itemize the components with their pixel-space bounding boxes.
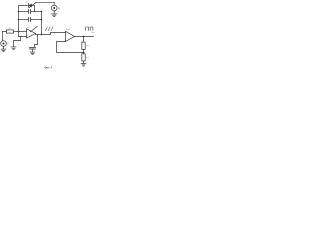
wire divider bottom [83, 61, 85, 63]
ground divider [81, 64, 86, 67]
ground below capacitor C2 [30, 52, 35, 55]
node output [83, 36, 85, 38]
wire top rail [36, 2, 54, 5]
generator G1 [1, 32, 7, 49]
capacitor C1 [19, 10, 42, 14]
resistor R2 zigzag [45, 27, 53, 31]
node divider junction [83, 52, 85, 54]
op-amp DA1.1 [27, 27, 38, 39]
wire drop to cap loop [34, 6, 36, 12]
wire divider top [83, 37, 85, 43]
lamp HL1 [51, 5, 57, 13]
capacitor C2 parallel branch [19, 18, 42, 22]
svg-text:G: G [7, 42, 9, 45]
ground input branch [11, 47, 16, 50]
svg-text:Фиг. 4: Фиг. 4 [44, 65, 52, 69]
svg-text:DA1: DA1 [27, 26, 30, 29]
wire op-amp2 output [75, 36, 94, 38]
node cap C2 junction right [41, 19, 43, 21]
svg-text:Вых.: Вых. [91, 32, 96, 34]
node cap C1 junction [41, 11, 43, 13]
node cap C1 junction left [18, 11, 20, 13]
resistor R7 [82, 54, 85, 61]
ground below lamp [52, 14, 57, 17]
wire op-amp1 output [35, 34, 41, 36]
varicap VD1 [29, 4, 35, 8]
resistor R1 [3, 30, 27, 33]
wire diagonal arrow to top rail [29, 2, 36, 8]
op-amp DA2 [66, 31, 75, 41]
wire between divider resistors [83, 49, 85, 53]
node junction bus/main [18, 31, 20, 33]
wire vertical bus left feedback [19, 6, 28, 32]
node cap C2 junction left [18, 19, 20, 21]
svg-text:M: M [58, 7, 60, 11]
meander output symbol [86, 27, 93, 30]
ground below generator [1, 49, 6, 52]
resistor R5 [82, 42, 85, 49]
wire inverting input stub [19, 32, 27, 37]
capacitor C2 under op-amp [30, 35, 38, 52]
wire feedback to inverting input [57, 42, 84, 53]
node output junction [41, 34, 43, 36]
wire to input ground branch [14, 37, 21, 47]
wire to op-amp2 input [42, 33, 66, 35]
wire right feedback drop [41, 12, 43, 35]
svg-text:1: 1 [36, 27, 37, 29]
